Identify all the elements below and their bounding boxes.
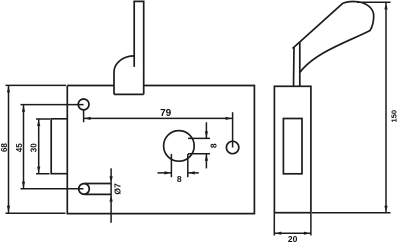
dim 68 extension lines (6, 85, 67, 213)
dim 45 extension lines (21, 105, 84, 189)
dimension 20 line (274, 232, 311, 234)
dim 20 arrows (274, 232, 281, 235)
bottom slot circle (79, 184, 90, 195)
dim 8 horizontal arrows (164, 171, 171, 174)
dimension 20 extension lines (274, 214, 311, 236)
svg-text:79: 79 (160, 108, 172, 119)
side view body (274, 86, 311, 212)
dim 8 vertical extension horizontals (188, 138, 210, 153)
dim 68 arrows (7, 85, 10, 92)
dimension 30 line (38, 119, 40, 174)
dim 30 extension lines (36, 119, 50, 174)
side view lever shaft (294, 42, 300, 86)
dim 79 extension verticals (84, 110, 233, 148)
lever bar (front view) (134, 1, 144, 94)
small right hole (226, 141, 238, 153)
plate outline (front view) (67, 86, 254, 214)
svg-text:68: 68 (0, 143, 9, 152)
dimension 8 horizontal line (158, 172, 199, 174)
dim 45 arrows (22, 105, 25, 112)
bottom slot lines (84, 184, 111, 195)
svg-text:30: 30 (30, 143, 39, 152)
dimension 150 line (385, 3, 387, 213)
dimension 150 extension lines (312, 2, 391, 213)
side view inner slot (283, 119, 302, 174)
dim 30 arrows (37, 119, 40, 126)
svg-text:Ø7: Ø7 (112, 183, 122, 195)
svg-text:8: 8 (177, 174, 182, 184)
dimension 8 vertical line (205, 122, 207, 168)
top-left hole (78, 99, 89, 110)
dim 79 arrows (84, 117, 91, 120)
dim 8 vertical arrows (205, 131, 208, 138)
dim d7 arrows (110, 176, 113, 183)
svg-text:20: 20 (288, 234, 298, 244)
svg-text:45: 45 (15, 143, 24, 152)
dimension 45 line (23, 105, 25, 189)
lever base (front view) (114, 56, 144, 95)
left flange rectangle (51, 119, 67, 174)
dim 8 horizontal extension verticals (171, 154, 187, 177)
dimension diameter7 line (110, 168, 112, 223)
big spindle circle (164, 131, 195, 162)
dim 150 arrows (384, 3, 387, 10)
side view handle (293, 1, 374, 72)
dimension 79 line (84, 117, 233, 119)
svg-text:150: 150 (390, 110, 399, 123)
svg-text:8: 8 (208, 143, 218, 148)
dimension 68 line (8, 85, 10, 212)
